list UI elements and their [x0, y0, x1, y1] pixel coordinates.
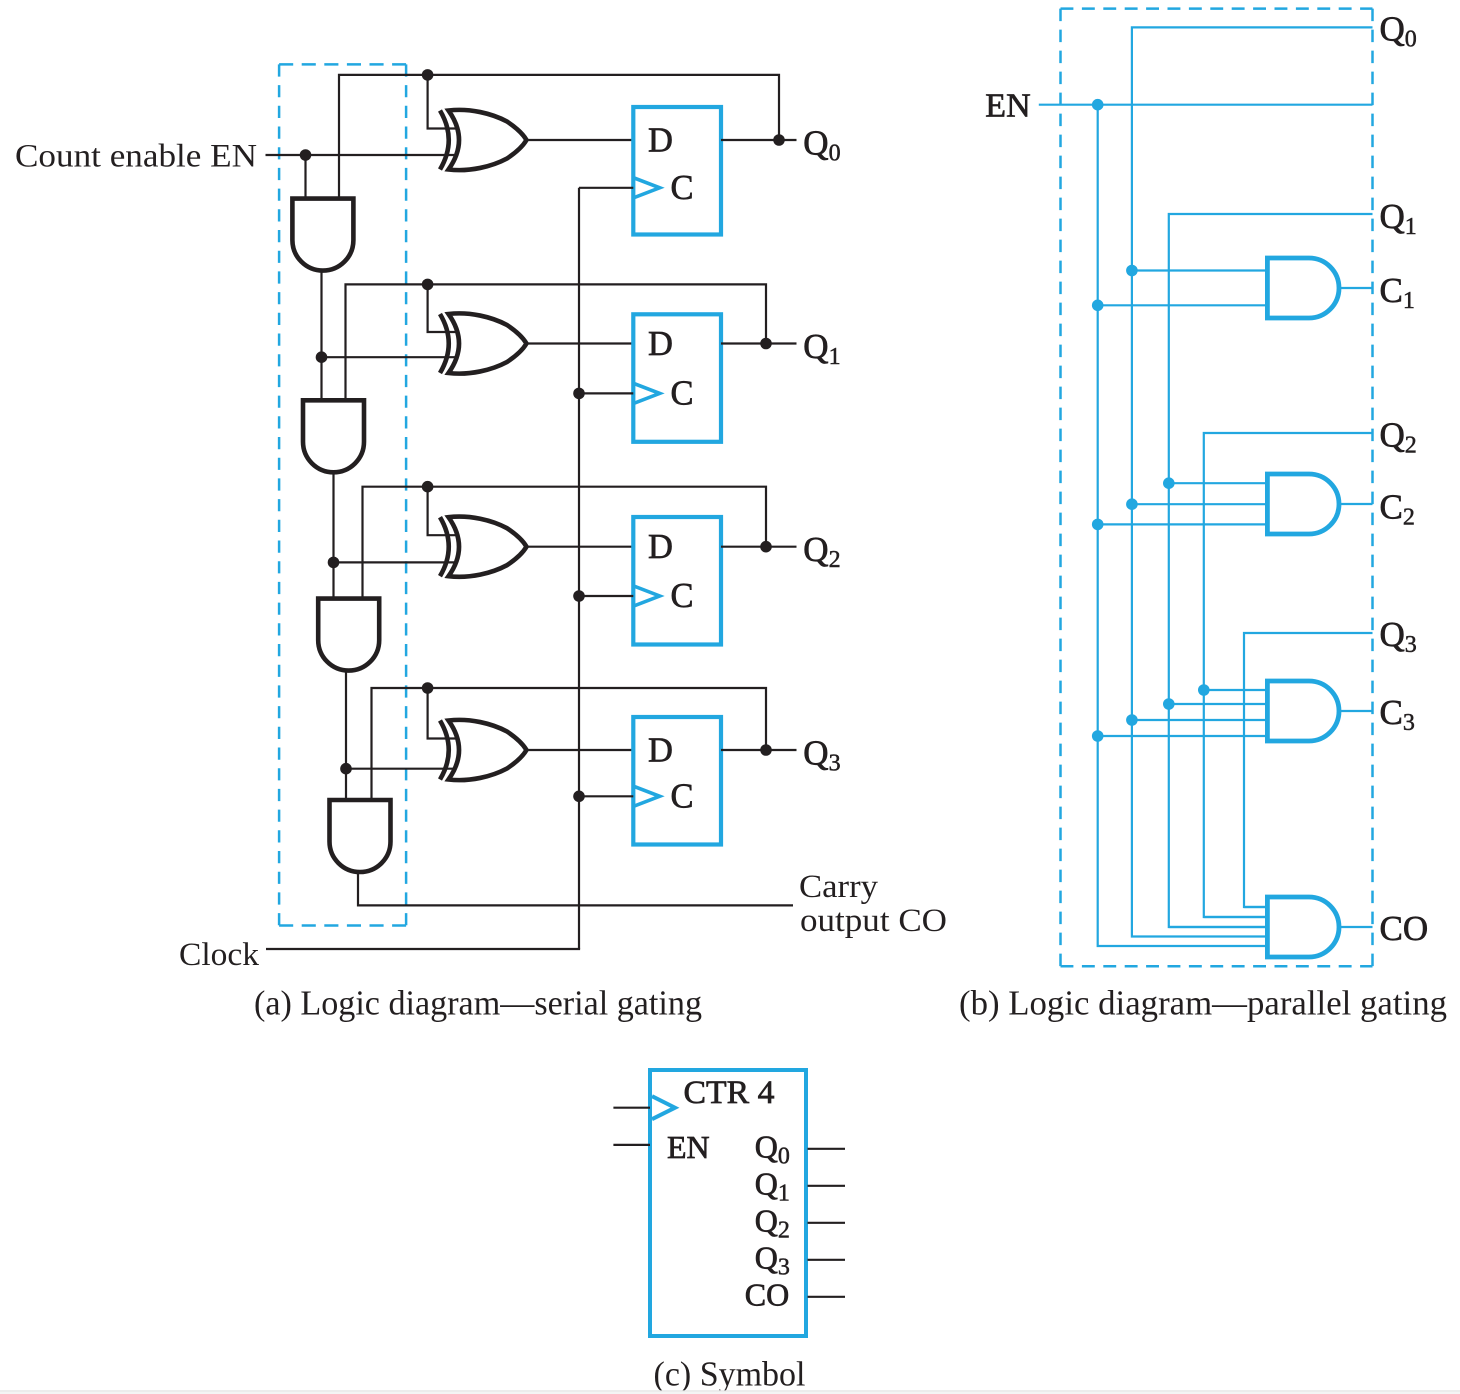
node: dot Q1 to C3 [1163, 698, 1175, 710]
dashed enclosure box (a) serial gating AND chain [279, 64, 406, 925]
wire: Q2 output line (c) [808, 1222, 846, 1224]
wire: clock vertical distribution line [578, 188, 580, 949]
node: EN junction dot (b) [1092, 99, 1104, 111]
wire: C3 gate input from EN [1098, 735, 1268, 737]
d-flip-flop FF4 [633, 717, 721, 845]
node: stage 4 top wire junction dot [422, 682, 434, 694]
and-gate A3 (serial gating chain) [318, 599, 379, 671]
stage 1 feedback top wire from Q0 [339, 75, 779, 198]
wire: clock input horizontal [266, 948, 580, 950]
node: stage 2 top wire junction dot [422, 279, 434, 291]
and-gate A4 (serial gating chain) [330, 800, 391, 872]
wire: C2 gate input from Q1 [1169, 482, 1268, 484]
and-gate A2 (serial gating chain) [303, 400, 364, 472]
wire: C3 gate input from Q0 [1132, 719, 1268, 721]
stage 2 feedback top wire from Q1 [346, 284, 767, 399]
and-gate A1 (serial gating chain) [292, 199, 353, 271]
wire: Q3 output [721, 749, 797, 751]
node: Q1 output junction dot [760, 338, 772, 350]
node: stage 3 chain junction dot [328, 557, 340, 569]
wire: Q2 input (b) [1204, 433, 1373, 917]
wire: Q3 input (b) [1244, 633, 1373, 907]
node: dot Q0 to C2 [1126, 498, 1138, 510]
node: stage 1 top wire junction dot [422, 69, 434, 81]
wire: stage 2 XOR top input tap [428, 284, 470, 332]
svg-text:D: D [648, 732, 673, 770]
xor-gate X1 [440, 111, 449, 170]
wire: C1 gate input from EN [1098, 304, 1268, 306]
svg-text:(a) Logic diagram—serial gatin: (a) Logic diagram—serial gating [254, 984, 702, 1023]
wire: C1 output [1339, 287, 1373, 289]
stage 3 feedback top wire from Q2 [363, 487, 767, 598]
svg-text:D: D [648, 325, 673, 363]
wire: Q1 input (b) [1169, 214, 1373, 927]
and-gate CO (5-input) [1267, 897, 1339, 957]
wire: CO output line (c) [808, 1296, 846, 1298]
wire: C2 gate input from Q0 [1132, 503, 1268, 505]
wire: clock to C input of FF3 [579, 595, 633, 597]
wire: Q0 output [721, 139, 797, 141]
d-flip-flop FF3 [633, 517, 721, 645]
svg-text:Carry: Carry [799, 869, 879, 905]
svg-text:C: C [671, 374, 694, 412]
clock triangle of FF1 [635, 178, 660, 197]
node: dot Q0 to C1 [1126, 265, 1138, 277]
counter symbol box CTR4 [650, 1070, 806, 1336]
wire: clock input (c) [613, 1107, 650, 1109]
and-gate C3 (4-input) [1267, 681, 1339, 741]
node: dot Q2 to C3 [1198, 684, 1210, 696]
svg-text:CO: CO [745, 1276, 789, 1312]
wire: XOR2 output to D input [526, 342, 633, 344]
node: clock junction dot stage 3 [573, 590, 585, 602]
wire: clock to C input of FF1 [579, 187, 633, 189]
wire: C2 output [1339, 503, 1373, 505]
wire: Q0 output line (c) [808, 1148, 846, 1150]
node: EN junction dot [300, 149, 312, 161]
wire: Q0 input (b) [1132, 27, 1373, 936]
wire: C2 gate input from EN [1098, 523, 1268, 525]
and-gate C2 (3-input) [1267, 474, 1339, 534]
dashed enclosure box (b) parallel gating [1061, 9, 1373, 967]
svg-text:CTR 4: CTR 4 [684, 1075, 775, 1111]
clock triangle of FF4 [635, 787, 660, 806]
wire: XOR3 output to D input [526, 546, 633, 548]
node: Q2 output junction dot [760, 541, 772, 553]
wire: EN input horizontal (b) [1039, 104, 1373, 106]
node: dot EN to C3 [1092, 730, 1104, 742]
wire: clock to C input of FF2 [579, 392, 633, 394]
wire: EN input [266, 154, 471, 156]
wire: EN vertical distribution (b) [1098, 105, 1268, 946]
wire: CO gate input from Q2 elbow [1204, 916, 1268, 918]
node: stage 3 top wire junction dot [422, 481, 434, 493]
wire: C3 output [1339, 710, 1373, 712]
wire: AND1 output down to AND2 [320, 270, 322, 358]
node: dot Q1 to C2 [1163, 477, 1175, 489]
wire: stage 2 chain row to XOR bottom input [322, 356, 471, 358]
wire: Q3 output line (c) [808, 1259, 846, 1261]
wire: C3 gate input from Q2 [1204, 689, 1268, 691]
wire: carry output CO from AND4 [358, 871, 793, 906]
svg-text:output CO: output CO [800, 903, 947, 939]
d-flip-flop FF1 [633, 107, 721, 235]
wire: clock to C input of FF4 [579, 795, 633, 797]
svg-text:Count enable EN: Count enable EN [15, 139, 257, 175]
wire: C1 gate input from Q0 [1132, 269, 1268, 271]
xor-gate X3 [440, 517, 449, 576]
wire: Q1 output [721, 342, 797, 344]
svg-text:D: D [648, 528, 673, 566]
wire: AND2 output down to AND3 [332, 471, 334, 562]
node: dot EN to C1 [1092, 300, 1104, 312]
svg-text:C: C [671, 777, 694, 815]
wire: XOR1 output to D input [526, 139, 633, 141]
wire: CO gate input from Q3 elbow [1244, 906, 1267, 908]
node: clock junction dot stage 2 [573, 388, 585, 400]
wire: stage 4 chain row to XOR bottom input [346, 768, 470, 770]
node: stage 4 chain junction dot [340, 763, 352, 775]
and-gate C1 (2-input) [1267, 258, 1339, 318]
xor-gate X4 [440, 721, 449, 780]
clock triangle of FF3 [635, 586, 660, 605]
wire: AND3 output down to AND4 [345, 670, 347, 769]
svg-text:EN: EN [667, 1129, 710, 1165]
node: Q3 output junction dot [760, 744, 772, 756]
wire: stage 3 XOR top input tap [428, 487, 470, 536]
clock triangle (c) [652, 1096, 675, 1119]
svg-text:C: C [671, 577, 694, 615]
clock triangle of FF2 [635, 384, 660, 403]
svg-text:(b) Logic diagram—parallel gat: (b) Logic diagram—parallel gating [959, 984, 1447, 1023]
node: dot EN to C2 [1092, 519, 1104, 531]
wire: stage 3 chain row to XOR bottom input [334, 561, 471, 563]
svg-text:D: D [648, 122, 673, 160]
wire: stage 4 XOR top input tap [428, 688, 470, 739]
wire: CO output (b) [1339, 926, 1373, 928]
svg-text:(c) Symbol: (c) Symbol [654, 1354, 806, 1393]
wire: XOR4 output to D input [526, 749, 633, 751]
xor-gate X2 [440, 314, 449, 373]
node: stage 2 chain junction dot [316, 351, 328, 363]
svg-text:Clock: Clock [179, 937, 260, 973]
page bottom rule [0, 1390, 1460, 1391]
wire: CO gate input from Q1 elbow [1169, 926, 1268, 928]
node: clock junction dot stage 4 [573, 791, 585, 803]
svg-text:CO: CO [1380, 909, 1429, 948]
svg-text:C: C [671, 169, 694, 207]
wire: C3 gate input from Q1 [1169, 703, 1268, 705]
wire: Q1 output line (c) [808, 1185, 846, 1187]
wire: EN dot down to AND1 left input [304, 155, 306, 199]
d-flip-flop FF2 [633, 314, 721, 442]
wire: EN input (c) [613, 1144, 650, 1146]
node: Q0 output junction dot [773, 134, 785, 146]
wire: Q2 output [721, 546, 797, 548]
node: dot Q0 to C3 [1126, 714, 1138, 726]
svg-text:EN: EN [985, 88, 1030, 125]
stage 4 feedback top wire from Q3 [372, 688, 767, 799]
wire: stage 1 XOR top input tap [428, 75, 470, 129]
